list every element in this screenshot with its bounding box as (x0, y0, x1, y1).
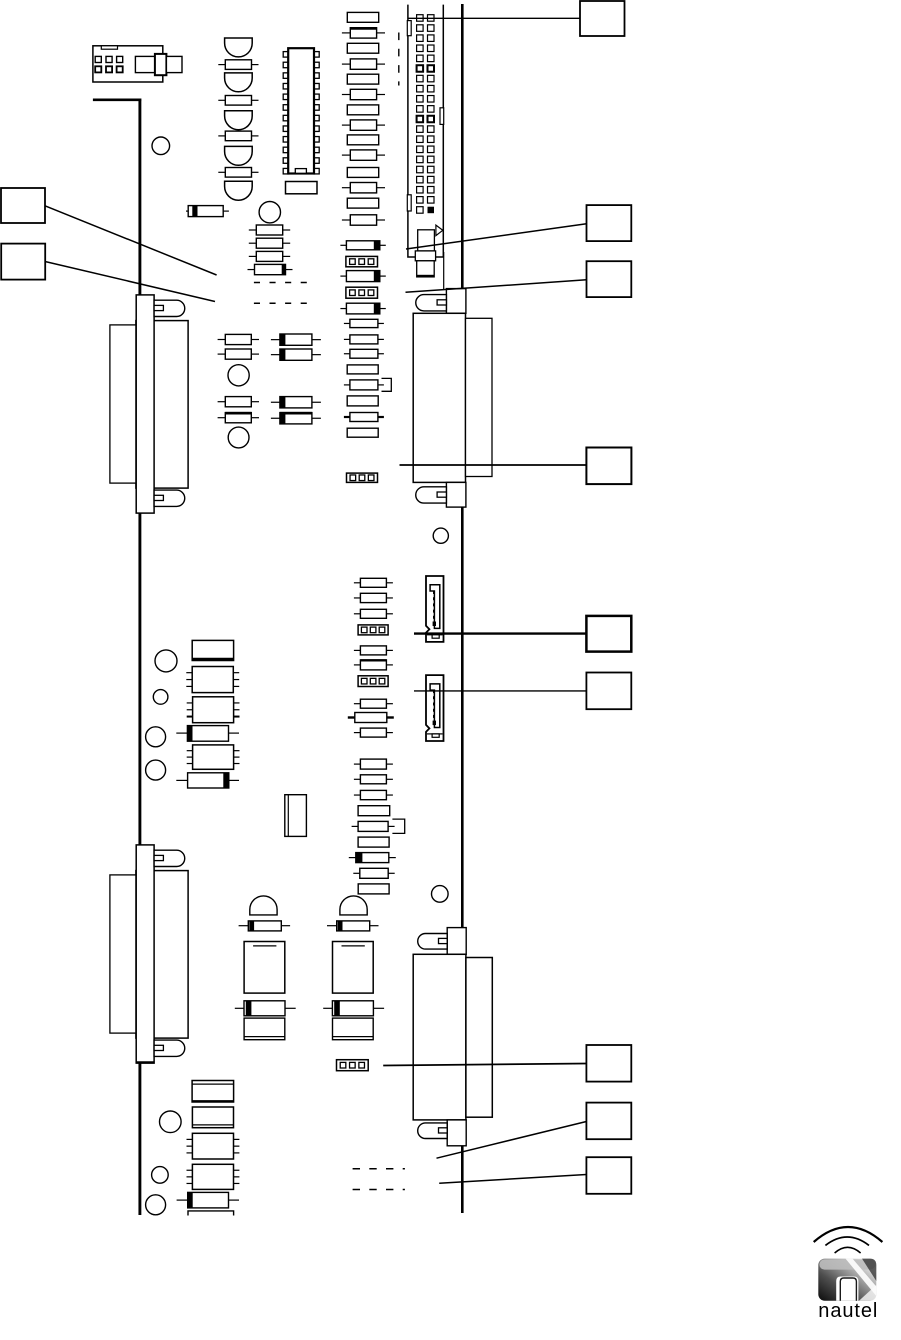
wire leader to callout D (400, 464, 587, 466)
resistor (mid column 13) (347, 198, 378, 208)
node callout F (586, 673, 631, 710)
wire leader to callout F (414, 690, 586, 692)
jumper header J13 (3-pin) (337, 1060, 369, 1071)
connector J8 (D-sub, right side lower) (413, 928, 492, 1146)
jumper header J4 (3-pin) (346, 287, 378, 298)
mounting hole (146, 1195, 166, 1215)
ic U4 (187, 745, 240, 769)
connector J6 (D-sub, right side upper) (413, 289, 492, 508)
resistor (344, 349, 384, 358)
capacitor (DS2) (333, 942, 374, 994)
resistor R1 (LED column) (218, 60, 258, 70)
resistor (354, 759, 393, 769)
ic U6 (187, 1164, 240, 1189)
relay K2 (192, 1081, 234, 1103)
relay K1 (192, 640, 233, 660)
mounting hole (146, 727, 166, 747)
wire leader to callout H (437, 1122, 587, 1159)
diode (pair cluster, banded) (271, 334, 321, 345)
resistor (354, 646, 393, 655)
node callout E (586, 616, 631, 652)
capacitor (DS1 base) (244, 1018, 285, 1040)
wire (J7 tab bottom edge) (137, 1061, 155, 1063)
resistor (mid column 11) (347, 168, 378, 178)
resistor (354, 660, 393, 670)
diode (DS1) (239, 921, 291, 931)
resistor (347, 428, 378, 437)
node callout 1 (left) (1, 188, 45, 223)
mounting hole (155, 650, 177, 672)
resistor R4 (LED column) (218, 168, 258, 178)
jumper header J5 (3-pin) (347, 473, 378, 482)
mounting hole (160, 1111, 182, 1133)
capacitor (DS1) (244, 942, 285, 994)
resistor (pair cluster left) (218, 397, 259, 407)
led D4 (225, 146, 253, 165)
resistor (stack) (249, 225, 290, 235)
ic U5 (187, 1133, 240, 1159)
diode CR4 (177, 1192, 239, 1208)
resistor (348, 713, 394, 723)
wire leader to callout G (383, 1064, 586, 1066)
node callout D (586, 448, 631, 485)
jumper header J12 (3-pin) (358, 676, 388, 687)
wire leader to callout B (406, 224, 587, 249)
mounting hole (259, 202, 280, 223)
resistor (344, 413, 384, 422)
led D5 (225, 181, 253, 200)
diode (banded) (349, 853, 396, 863)
diode CR3 (176, 773, 239, 788)
connector J10 (vertical header lower) (426, 675, 444, 741)
wire leader to callout C (406, 280, 587, 293)
resistor (mid column 1) (347, 12, 378, 22)
diode (pair cluster, banded) (271, 413, 321, 424)
resistor (pair cluster left) (218, 349, 259, 359)
resistor with test loop (352, 819, 405, 833)
led D3 (225, 111, 253, 130)
resistor (mid column 6) (342, 89, 385, 99)
resistor (347, 365, 378, 374)
jumper header J11 (3-pin) (358, 625, 388, 635)
wire dashed net row 4 (353, 1189, 405, 1191)
mounting hole (152, 1167, 169, 1184)
led D1 (225, 38, 253, 57)
resistor (mid column 5) (347, 74, 378, 84)
wire dashed (silkscreen near J2) (398, 33, 400, 86)
diode (DS1, horizontal) (235, 1001, 296, 1016)
mounting hole (below J6) (433, 528, 448, 543)
resistor R2 (LED column) (218, 96, 258, 106)
resistor (347, 396, 378, 406)
svg-text:nautel: nautel (818, 1300, 877, 1322)
resistor (stack) (249, 251, 290, 261)
resistor (mid column 14) (342, 215, 385, 225)
resistor (353, 868, 394, 878)
wire leader to callout 2 (45, 262, 215, 302)
led D2 (225, 73, 253, 92)
resistor (354, 578, 393, 587)
resistor (mid column 8) (342, 120, 385, 130)
node callout C (587, 261, 632, 297)
ic U3 (187, 697, 240, 723)
resistor (stack) (249, 238, 290, 248)
wire leader to callout 1 (45, 206, 217, 275)
relay K3 (192, 1107, 233, 1128)
resistor (mid column 7) (347, 105, 378, 115)
diode (stack, banded) (248, 264, 293, 274)
resistor with test loop (344, 378, 391, 391)
mounting hole (left of U1) (152, 137, 170, 155)
mounting hole (above J8) (432, 886, 449, 903)
pin 1 marker (triangle) (436, 225, 443, 236)
wire dashed net row 1 (254, 282, 307, 284)
diode (mid column, banded) (340, 241, 385, 250)
led DS1 dome (250, 896, 277, 915)
node callout A (580, 1, 625, 36)
connector J2 shroud plug (415, 230, 435, 277)
node callout H (586, 1103, 631, 1140)
wire board edge right (461, 4, 464, 1213)
wire dashed net row 3 (353, 1168, 405, 1170)
resistor (344, 319, 384, 327)
capacitor (DS2 base) (333, 1018, 374, 1040)
diode (DS2) (327, 921, 379, 931)
wire leader to callout E (414, 632, 586, 634)
capacitor C1 (285, 795, 307, 837)
resistor (mid column 4) (342, 59, 385, 69)
logo nautel (814, 1227, 883, 1322)
connector J7 (D-sub, left side lower) (110, 845, 188, 1063)
mounting hole (146, 760, 166, 780)
resistor (354, 790, 393, 799)
diode CR2 (176, 726, 239, 742)
resistor (mid column 2) (342, 28, 385, 38)
ic U1 (DIP-24) (283, 48, 319, 174)
resistor (354, 609, 393, 618)
led DS2 dome (340, 896, 367, 915)
diode (mid column, banded) (340, 303, 385, 314)
wire leader to callout I (439, 1175, 586, 1184)
mounting hole (228, 365, 249, 386)
resistor (358, 806, 390, 816)
connector J1 (RF jack, top-left) (93, 46, 182, 82)
mounting hole (228, 427, 249, 448)
ic U7 (clipped at drawing edge) (188, 1211, 234, 1216)
diode (pair cluster, banded) (271, 397, 321, 408)
wire leader to callout A (408, 17, 581, 19)
resistor (mid column 9) (347, 135, 378, 145)
node callout I (586, 1157, 631, 1194)
diode CR1 (186, 206, 229, 217)
mounting hole (153, 690, 168, 705)
connector J5 (D-sub, left side upper) (110, 295, 188, 513)
ic U2 (186, 667, 239, 693)
resistor (354, 728, 393, 737)
diode (pair cluster, banded) (271, 349, 321, 360)
resistor (mid column 3) (347, 43, 378, 53)
resistor (below U1) (286, 182, 318, 194)
node callout G (586, 1045, 631, 1082)
resistor (358, 884, 389, 894)
resistor (358, 837, 389, 847)
connector J2 (40-pin boxed header) (407, 5, 443, 257)
diode (DS2, horizontal) (323, 1001, 384, 1016)
resistor (pair cluster left) (218, 413, 259, 423)
wire dashed net row 2 (254, 302, 307, 304)
diode (mid column, banded) (340, 271, 385, 282)
node callout B (587, 205, 632, 241)
connector J9 (vertical header upper) (426, 576, 444, 642)
node callout 2 (left) (1, 244, 45, 280)
wire board edge left (thick L outline) (93, 99, 141, 1216)
resistor (mid column 12) (342, 183, 385, 193)
resistor R3 (LED column) (218, 131, 258, 141)
resistor (344, 335, 384, 344)
wire connector J2 edge extension (443, 252, 445, 290)
resistor (pair cluster left) (218, 334, 259, 344)
resistor (mid column 10) (342, 150, 385, 160)
resistor (354, 699, 393, 708)
jumper header J3 (3-pin) (346, 256, 378, 266)
resistor (354, 593, 393, 602)
resistor (354, 775, 393, 784)
